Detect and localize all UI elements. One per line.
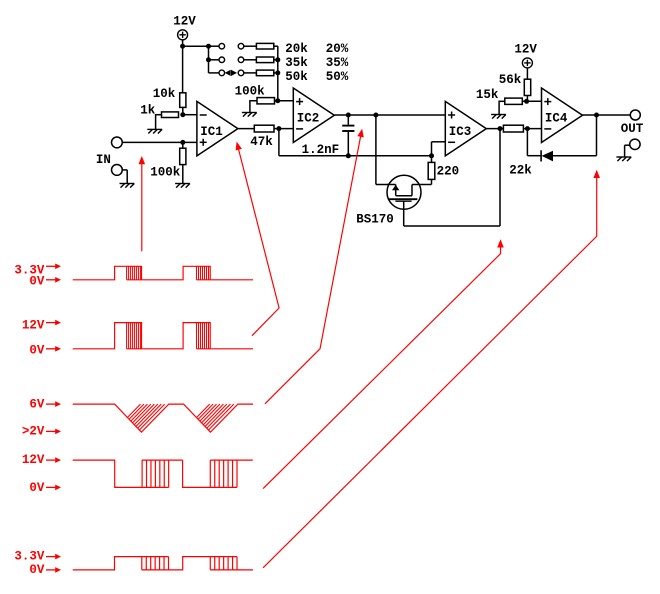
svg-text:0V: 0V <box>29 481 45 495</box>
waveform 3 hatch dip 1 <box>127 404 140 417</box>
op-amp IC2 <box>293 88 334 143</box>
op-amp IC4 <box>542 88 583 143</box>
wire 15k left lead <box>499 100 505 102</box>
svg-text:56k: 56k <box>499 73 522 87</box>
svg-text:100k: 100k <box>235 85 266 99</box>
resistor 50k <box>256 70 273 76</box>
wire IC2 output to IC3+ <box>334 114 445 116</box>
resistor 15k <box>505 98 523 104</box>
ground at 100k input <box>175 184 190 188</box>
resistor 22k <box>503 125 523 132</box>
wire row2 bus to contact <box>209 59 220 61</box>
wire row1 contact to resistor <box>244 45 257 47</box>
wire source drop <box>403 201 405 226</box>
wire 22k to IC4- <box>523 128 541 130</box>
wire feedback drop <box>278 129 280 156</box>
wire 12V to 56k <box>526 68 528 80</box>
pointer arrow 5 (wf5 to IC4 output) <box>263 177 597 568</box>
resistor 220 <box>428 162 435 179</box>
svg-text:50%: 50% <box>326 70 349 84</box>
wire IN to IC1+ <box>122 141 196 143</box>
svg-text:IC3: IC3 <box>449 125 472 139</box>
wire row2 contact to resistor <box>244 59 257 61</box>
wire drain to 220 <box>421 184 432 186</box>
wire 50k to bus <box>274 72 278 74</box>
svg-text:20k: 20k <box>285 42 308 56</box>
wire row3 contact to resistor <box>244 72 257 74</box>
svg-text:IC4: IC4 <box>545 111 568 125</box>
wire switch right bus <box>277 46 279 101</box>
node gate branch <box>373 113 378 118</box>
node 1k/10k/IC1- junction <box>180 112 185 117</box>
svg-text:12V: 12V <box>22 318 45 332</box>
node IC3 output junction <box>498 126 503 131</box>
svg-text:220: 220 <box>437 165 460 179</box>
waveform 3 hatch dip 2 <box>197 404 210 418</box>
svg-text:BS170: BS170 <box>356 212 394 226</box>
wire 100k to ground <box>182 165 184 184</box>
svg-text:1k: 1k <box>140 104 156 118</box>
switch S1 right contact <box>238 43 244 49</box>
wire row3 bus to contact <box>209 72 220 74</box>
svg-text:0V: 0V <box>29 563 45 577</box>
wire 1k left lead <box>156 114 162 116</box>
switch S3 left contact <box>219 70 225 76</box>
svg-text:0V: 0V <box>29 343 45 357</box>
connector OUT signal <box>630 110 640 120</box>
svg-text:IC1: IC1 <box>200 125 223 139</box>
node right bus to IC2+ <box>275 98 280 103</box>
svg-text:OUT: OUT <box>621 122 644 136</box>
wire 12V junction to switch bus <box>183 45 209 47</box>
resistor 35k <box>256 57 273 63</box>
wire IC4 feedback <box>596 115 598 156</box>
wire IN shield to ground <box>122 169 127 171</box>
wire node to IC1 inverting input <box>183 114 197 116</box>
resistor 20k <box>256 43 273 49</box>
waveform 5: 3.3V PWM output <box>73 557 253 570</box>
ground at IN shield <box>120 184 135 188</box>
svg-text:22k: 22k <box>509 164 532 178</box>
switch S2 right contact <box>238 57 244 63</box>
capacitor C1 1.2nF <box>347 115 349 125</box>
node IC4 output junction <box>594 113 599 118</box>
wire IC3 output <box>486 128 503 130</box>
node 220/feedback/IC3- junction <box>429 153 434 158</box>
node capacitor top <box>346 113 351 118</box>
wire feedback bottom rail <box>279 155 432 157</box>
ground at 1k <box>147 129 162 133</box>
svg-text:12V: 12V <box>22 453 45 467</box>
wire 15k node to IC4+ <box>522 100 541 102</box>
wire IC3out to source loop <box>499 129 501 226</box>
svg-text:3.3V: 3.3V <box>14 549 45 563</box>
svg-text:0V: 0V <box>29 275 45 289</box>
svg-text:50k: 50k <box>285 70 308 84</box>
pointer arrow 4 (wf4 to IC3 loop) <box>263 247 500 489</box>
resistor 100k (input bias) <box>180 148 186 164</box>
node 15k/56k/IC4+ junction <box>524 99 529 104</box>
wire 10k to node <box>182 107 184 114</box>
switch wiper arrows (row 3 selected) <box>225 70 231 76</box>
wire 35k to bus <box>274 59 278 61</box>
svg-text:IN: IN <box>96 153 111 167</box>
svg-text:12V: 12V <box>173 15 196 29</box>
wire gate branch drop <box>375 115 377 185</box>
connector IN signal <box>112 137 123 148</box>
resistor 1k <box>162 112 179 118</box>
node 47k/IC2-/feedback junction <box>276 126 281 131</box>
pointer arrow 2 (wf2 to IC1 output) <box>239 150 280 336</box>
node switch bus row1 <box>206 44 211 49</box>
svg-text:6V: 6V <box>29 397 45 411</box>
svg-text:IC2: IC2 <box>297 111 320 125</box>
wire 220 top lead <box>431 156 433 163</box>
wire OUT shield to ground <box>625 144 630 146</box>
diode D1 <box>540 150 542 161</box>
op-amp IC1 <box>197 101 238 155</box>
svg-text:35%: 35% <box>326 56 349 70</box>
node 22k/IC4-/diode junction <box>525 126 530 131</box>
ground at OUT shield <box>616 157 631 161</box>
svg-text:1.2nF: 1.2nF <box>302 143 340 157</box>
node 12V bus junction <box>180 44 185 49</box>
svg-text:>2V: >2V <box>22 425 45 439</box>
wire IC3- stub <box>431 142 433 156</box>
ground at 100k IC2 <box>242 113 257 117</box>
node right bus row3 <box>275 70 280 75</box>
svg-text:20%: 20% <box>326 42 349 56</box>
connector OUT shield <box>630 139 640 149</box>
switch S3 right contact <box>238 70 244 76</box>
waveform 2: 12V comparator output <box>73 323 253 349</box>
op-amp IC3 <box>445 101 486 155</box>
pointer arrow 1 (wf1 to IN wire) <box>141 164 143 252</box>
node IN/100k junction <box>180 140 185 145</box>
svg-text:10k: 10k <box>153 87 176 101</box>
wire 56k to node <box>526 96 528 102</box>
pointer arrow 3 (wf3 to capacitor) <box>265 136 361 404</box>
svg-text:47k: 47k <box>250 135 273 149</box>
wire row1 bus to contact <box>209 45 220 47</box>
svg-text:35k: 35k <box>285 56 308 70</box>
resistor 10k <box>180 93 186 108</box>
connector IN shield <box>112 165 123 176</box>
resistor 56k <box>524 79 530 95</box>
node right bus row2 <box>275 57 280 62</box>
svg-text:15k: 15k <box>476 88 499 102</box>
node capacitor bottom <box>346 153 351 158</box>
switch S1 left contact <box>219 43 225 49</box>
waveform 1: 3.3V input signal <box>73 266 253 280</box>
resistor 100k (IC2+) <box>257 98 275 104</box>
ground at 15k <box>491 115 506 119</box>
wire 12V to 10k <box>182 40 184 93</box>
wire 20k to bus <box>274 45 278 47</box>
svg-text:12V: 12V <box>514 43 537 57</box>
waveform 4: 12V PWM output <box>73 460 253 487</box>
resistor 47k <box>254 125 274 132</box>
transistor Q1 BS170 <box>387 175 421 209</box>
node switch bus row2 <box>206 57 211 62</box>
wire IC4 output to OUT <box>583 114 631 116</box>
wire bus to IC2+ <box>278 100 294 102</box>
svg-text:100k: 100k <box>150 165 181 179</box>
wire switch left bus <box>208 46 210 73</box>
wire IC1 output to 47k <box>238 128 254 130</box>
switch S2 left contact <box>219 57 225 63</box>
waveform 3: 6V ramp signal <box>73 404 253 432</box>
wire 47k to IC2- <box>274 128 293 130</box>
wire 100k IC2 left lead <box>250 100 257 102</box>
